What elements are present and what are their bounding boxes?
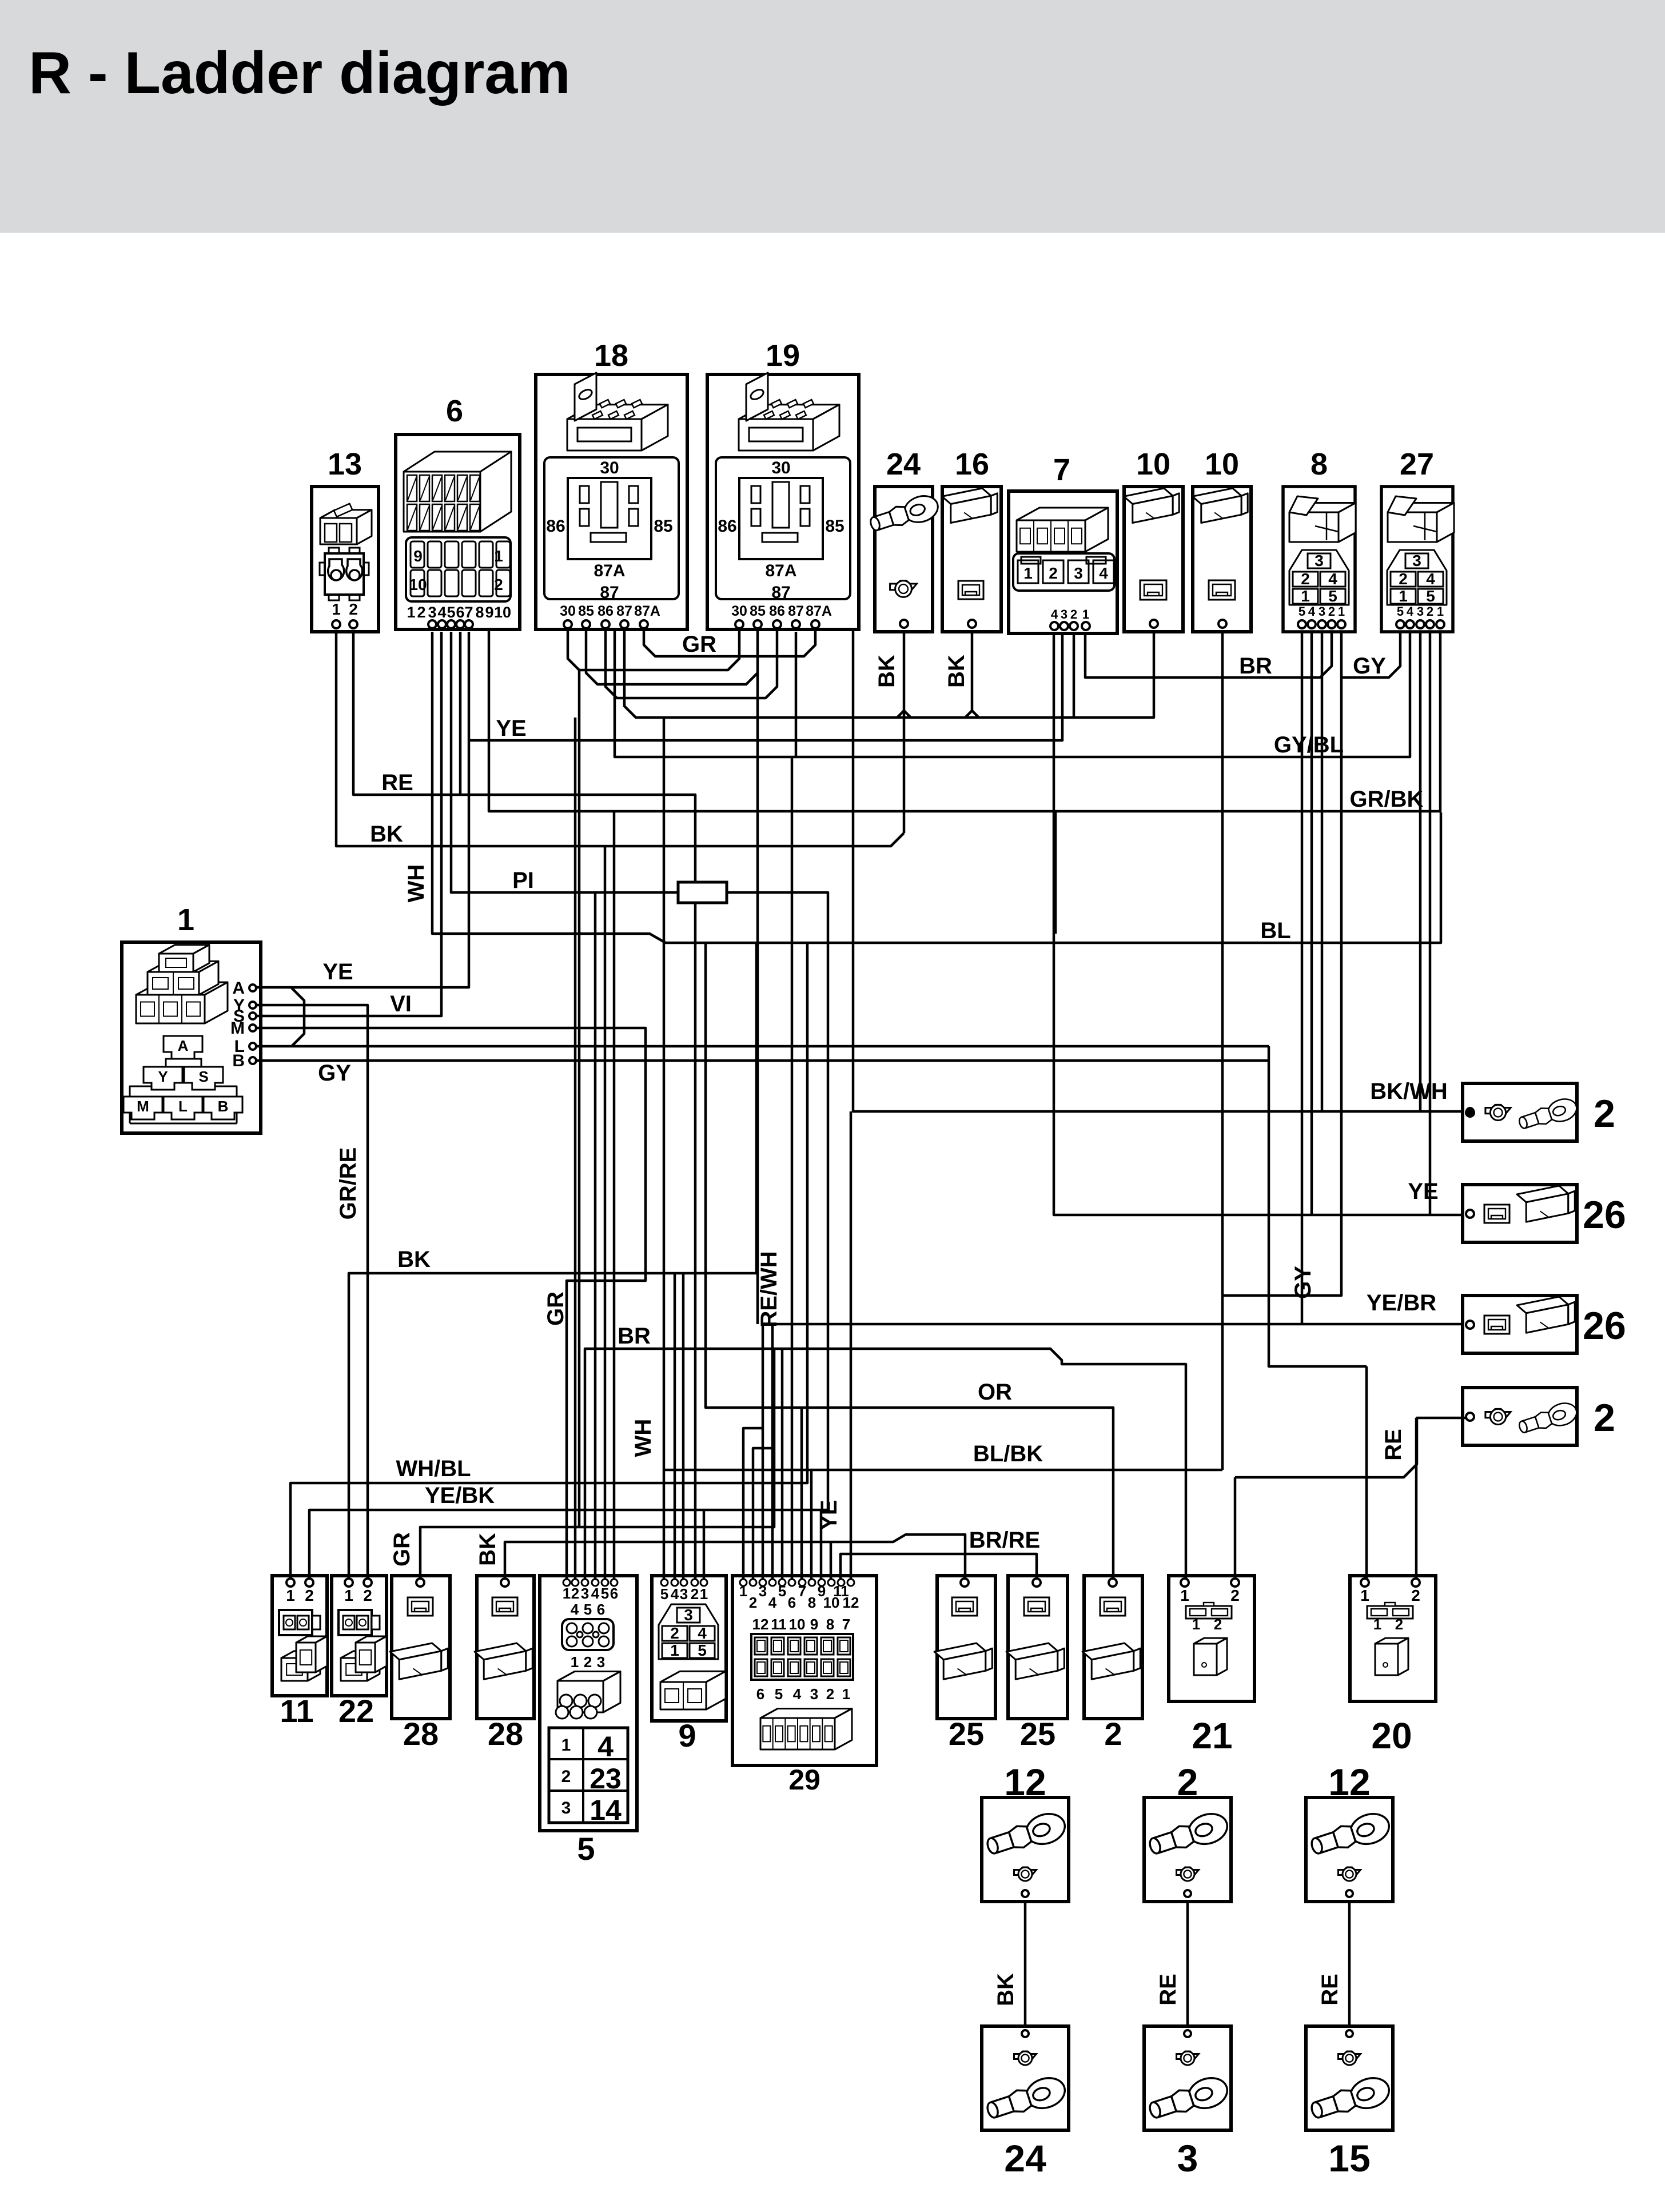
svg-text:Y: Y: [158, 1068, 168, 1085]
wire OR: [706, 943, 1113, 1581]
connector 21: [1169, 1576, 1254, 1701]
svg-text:87A: 87A: [765, 561, 796, 580]
wire GY comp1-B: [253, 1059, 1269, 1062]
wire YE/BK: [309, 1510, 828, 1581]
svg-text:7: 7: [1053, 453, 1070, 487]
svg-text:1: 1: [739, 1583, 747, 1600]
svg-text:BK: BK: [397, 1247, 431, 1272]
svg-text:28: 28: [403, 1716, 439, 1752]
svg-text:2: 2: [584, 1653, 592, 1671]
svg-text:7: 7: [798, 1583, 806, 1600]
svg-text:YE/BK: YE/BK: [425, 1483, 495, 1508]
svg-text:BK: BK: [944, 655, 969, 688]
svg-text:3: 3: [759, 1583, 767, 1600]
connector 20: [1350, 1576, 1436, 1701]
svg-text:10: 10: [1205, 447, 1239, 481]
svg-text:2: 2: [1230, 1587, 1240, 1604]
svg-text:3: 3: [810, 1685, 818, 1703]
svg-text:A: A: [178, 1037, 189, 1054]
svg-text:1: 1: [1301, 587, 1310, 605]
wire GY 8-27: [1341, 632, 1400, 677]
svg-text:VI: VI: [390, 991, 412, 1017]
svg-text:1: 1: [670, 1641, 679, 1659]
svg-text:87A: 87A: [593, 561, 625, 580]
svg-text:YE: YE: [322, 959, 353, 985]
svg-text:86: 86: [598, 603, 614, 619]
svg-text:1: 1: [1373, 1616, 1381, 1633]
wire BK 13p1: [336, 632, 904, 846]
wire YE to 26a: [1054, 632, 1463, 1215]
svg-text:5: 5: [1397, 604, 1404, 619]
svg-text:RE: RE: [1381, 1429, 1406, 1461]
svg-text:GR: GR: [543, 1292, 568, 1326]
svg-text:19: 19: [766, 338, 800, 373]
svg-text:28: 28: [488, 1716, 523, 1752]
table connector 5: [549, 1728, 628, 1823]
svg-text:6: 6: [788, 1594, 796, 1611]
svg-text:M: M: [230, 1019, 245, 1038]
svg-text:1: 1: [563, 1585, 571, 1602]
wire comp8 risers: [1301, 632, 1304, 1324]
wire comp1-L long: [253, 1045, 1269, 1048]
svg-text:2: 2: [1301, 570, 1310, 588]
svg-text:15: 15: [1328, 2137, 1370, 2179]
svg-text:24: 24: [886, 447, 921, 481]
terminal 2 bottom: [1084, 1576, 1142, 1719]
svg-text:3: 3: [1177, 2137, 1198, 2179]
svg-text:4: 4: [571, 1601, 579, 1618]
svg-text:S: S: [198, 1068, 208, 1085]
svg-text:RE: RE: [381, 770, 413, 795]
svg-text:YE: YE: [496, 716, 526, 741]
svg-text:20: 20: [1371, 1715, 1412, 1756]
wire stub vertical: [1054, 811, 1057, 934]
svg-text:RE: RE: [1156, 1974, 1181, 2006]
wire vertical from 10b: [1221, 632, 1224, 1470]
svg-text:WH/BL: WH/BL: [396, 1456, 471, 1481]
svg-text:4: 4: [1407, 604, 1414, 619]
svg-text:30: 30: [731, 603, 747, 619]
svg-text:BL: BL: [1260, 918, 1290, 943]
svg-text:13: 13: [328, 447, 362, 481]
svg-text:GY: GY: [318, 1061, 351, 1086]
svg-text:6: 6: [610, 1585, 618, 1602]
svg-text:1: 1: [1437, 604, 1444, 619]
svg-text:B: B: [232, 1051, 245, 1070]
terminal 25b: [1008, 1576, 1067, 1719]
svg-text:BR/RE: BR/RE: [969, 1528, 1040, 1553]
svg-text:B: B: [218, 1098, 229, 1115]
svg-text:2: 2: [1594, 1092, 1615, 1135]
wire 18p86-19p86: [606, 629, 777, 698]
svg-text:6: 6: [456, 604, 464, 621]
svg-text:1: 1: [700, 1585, 708, 1603]
terminal 2 right-top: [1463, 1083, 1577, 1141]
svg-text:5: 5: [577, 1831, 595, 1867]
svg-text:BR: BR: [618, 1324, 651, 1349]
svg-text:24: 24: [1004, 2137, 1046, 2179]
svg-text:10: 10: [789, 1616, 806, 1633]
svg-text:11: 11: [771, 1616, 787, 1633]
svg-text:25: 25: [949, 1716, 984, 1752]
wire GR comp1-M: [253, 1028, 646, 1581]
svg-text:5: 5: [1328, 587, 1337, 605]
svg-text:1: 1: [1338, 604, 1345, 619]
svg-text:BK: BK: [993, 1973, 1018, 2006]
svg-text:6: 6: [756, 1685, 764, 1703]
svg-text:A: A: [232, 979, 245, 998]
svg-text:87: 87: [788, 603, 804, 619]
wire comp9 risers: [674, 1273, 676, 1581]
svg-text:8: 8: [475, 604, 484, 621]
svg-text:2: 2: [494, 576, 503, 593]
svg-text:WH: WH: [631, 1419, 656, 1457]
svg-text:3: 3: [581, 1585, 589, 1602]
svg-text:5: 5: [601, 1585, 609, 1602]
wire GY vertical from 8p1: [1222, 632, 1341, 1296]
svg-text:4: 4: [1099, 564, 1108, 582]
svg-text:12: 12: [752, 1616, 769, 1633]
svg-text:2: 2: [1070, 607, 1077, 621]
svg-text:4: 4: [1328, 570, 1337, 588]
wire ring terminal RE b: [1348, 1902, 1351, 2026]
svg-text:10: 10: [409, 576, 427, 593]
svg-text:87: 87: [771, 583, 790, 602]
wire RE/WH 29p6: [791, 757, 794, 1581]
svg-text:85: 85: [750, 603, 766, 619]
svg-text:1: 1: [177, 903, 194, 937]
svg-text:1: 1: [1023, 564, 1033, 582]
header bar: [0, 0, 1665, 233]
svg-text:2: 2: [670, 1624, 679, 1642]
svg-text:9: 9: [485, 604, 493, 621]
svg-text:1: 1: [1082, 607, 1089, 621]
svg-text:3: 3: [597, 1653, 605, 1671]
wire 19p87 stub: [795, 632, 798, 757]
svg-text:4: 4: [1426, 570, 1435, 588]
svg-text:1: 1: [1360, 1587, 1369, 1604]
wire BK from 24: [903, 632, 906, 833]
svg-text:3: 3: [1074, 564, 1083, 582]
svg-text:2: 2: [826, 1685, 834, 1703]
svg-text:85: 85: [578, 603, 594, 619]
terminal 25a: [937, 1576, 995, 1719]
svg-text:87A: 87A: [806, 603, 832, 619]
svg-text:3: 3: [1319, 604, 1325, 619]
svg-text:16: 16: [955, 447, 989, 481]
svg-text:2: 2: [1594, 1396, 1615, 1440]
svg-text:23: 23: [589, 1763, 622, 1795]
svg-text:3: 3: [1061, 607, 1067, 621]
svg-text:PI: PI: [512, 868, 534, 893]
svg-text:86: 86: [546, 517, 565, 536]
svg-text:1: 1: [1180, 1587, 1189, 1604]
svg-text:1: 1: [842, 1685, 850, 1703]
svg-text:GR: GR: [682, 632, 716, 657]
wire 18p30-19p30: [568, 629, 739, 670]
svg-text:30: 30: [560, 603, 576, 619]
wire WH vertical 9p5: [663, 718, 666, 1581]
svg-text:5: 5: [584, 1601, 592, 1618]
svg-text:9: 9: [678, 1717, 696, 1753]
svg-text:BR: BR: [1239, 653, 1272, 679]
wire BL: [432, 632, 1441, 943]
svg-text:2: 2: [305, 1587, 314, 1604]
svg-text:1: 1: [494, 547, 503, 565]
wire bus to connector 10a: [624, 629, 1154, 718]
svg-text:9: 9: [810, 1616, 818, 1633]
svg-text:BL/BK: BL/BK: [973, 1441, 1043, 1466]
svg-text:10: 10: [494, 604, 511, 621]
svg-text:25: 25: [1020, 1716, 1055, 1752]
wire ring terminal BK: [1024, 1902, 1027, 2026]
wire comp1-Y GR/RE: [253, 1005, 368, 1581]
svg-text:2: 2: [691, 1585, 699, 1603]
svg-text:5: 5: [660, 1585, 668, 1603]
svg-text:1: 1: [407, 604, 415, 621]
wire YE 29p12: [850, 1111, 853, 1581]
svg-text:GR/RE: GR/RE: [336, 1147, 361, 1220]
svg-text:2: 2: [1411, 1587, 1420, 1604]
svg-text:22: 22: [338, 1693, 374, 1729]
wire BR comp5: [585, 1349, 1186, 1581]
wire BR 7-8: [1085, 632, 1332, 677]
svg-text:2: 2: [1399, 570, 1408, 588]
svg-text:4: 4: [437, 604, 446, 621]
svg-text:14: 14: [589, 1794, 622, 1826]
wire BK 28b to 25a: [505, 1535, 965, 1581]
svg-text:1: 1: [571, 1653, 579, 1671]
svg-text:2: 2: [1049, 564, 1058, 582]
terminal 2 right-bottom: [1463, 1388, 1577, 1445]
svg-text:4: 4: [671, 1585, 679, 1603]
wire BL/BK: [664, 1469, 1222, 1472]
svg-text:2: 2: [1104, 1716, 1122, 1752]
svg-text:1: 1: [344, 1587, 353, 1604]
svg-text:9: 9: [413, 547, 423, 565]
svg-text:4: 4: [1308, 604, 1316, 619]
svg-text:21: 21: [1192, 1715, 1232, 1756]
svg-text:6: 6: [597, 1601, 605, 1618]
svg-text:2: 2: [1427, 604, 1433, 619]
svg-text:1: 1: [1192, 1616, 1200, 1633]
svg-text:1: 1: [286, 1587, 295, 1604]
svg-text:2: 2: [349, 600, 358, 618]
svg-text:1: 1: [332, 600, 341, 618]
svg-text:2: 2: [571, 1585, 579, 1602]
svg-text:M: M: [137, 1098, 149, 1115]
svg-text:87: 87: [616, 603, 632, 619]
wire GY/BL: [615, 629, 1410, 757]
terminal 28b: [477, 1576, 534, 1719]
svg-text:4: 4: [768, 1594, 777, 1611]
terminal 28a: [392, 1576, 450, 1719]
svg-text:6: 6: [446, 394, 463, 428]
svg-text:4: 4: [793, 1685, 802, 1703]
svg-text:8: 8: [826, 1616, 834, 1633]
svg-text:5: 5: [447, 604, 455, 621]
svg-text:4: 4: [698, 1624, 707, 1642]
terminal 26 right-a: [1463, 1185, 1577, 1242]
svg-text:GR: GR: [389, 1532, 415, 1567]
svg-text:85: 85: [654, 517, 672, 536]
svg-text:2: 2: [417, 604, 425, 621]
svg-text:3: 3: [684, 1606, 693, 1624]
svg-text:86: 86: [718, 517, 736, 536]
svg-text:7: 7: [842, 1616, 850, 1633]
wire BK 22p1: [349, 943, 756, 1581]
wire GR ladder 18-19: [644, 629, 815, 656]
svg-text:18: 18: [594, 338, 628, 373]
svg-text:30: 30: [600, 459, 619, 477]
svg-text:4: 4: [598, 1731, 614, 1763]
svg-text:3: 3: [680, 1585, 688, 1603]
svg-text:OR: OR: [978, 1380, 1012, 1405]
svg-text:27: 27: [1400, 447, 1434, 481]
connector 11: [272, 1576, 327, 1696]
wire YE to 7: [469, 632, 1062, 740]
svg-text:10: 10: [1136, 447, 1170, 481]
wire VI comp1-S: [253, 632, 441, 1016]
wire BK/WH: [853, 629, 1463, 1111]
wire ring terminal RE a: [1186, 1902, 1189, 2026]
svg-text:2: 2: [1328, 604, 1335, 619]
svg-text:11: 11: [280, 1693, 313, 1729]
svg-text:3: 3: [428, 604, 436, 621]
svg-text:5: 5: [698, 1641, 707, 1659]
svg-text:GR/BK: GR/BK: [1350, 787, 1424, 812]
wire WH/BL: [290, 943, 807, 1581]
svg-text:2: 2: [363, 1587, 372, 1604]
svg-text:R - Ladder diagram: R - Ladder diagram: [29, 40, 571, 106]
svg-text:3: 3: [561, 1799, 571, 1818]
svg-text:26: 26: [1583, 1193, 1626, 1237]
svg-text:3: 3: [1412, 552, 1421, 569]
wire BK from 16: [965, 632, 972, 718]
svg-text:5: 5: [778, 1583, 786, 1600]
wire YE comp1-A: [253, 632, 469, 987]
svg-text:GY: GY: [1353, 653, 1386, 679]
svg-text:2: 2: [1395, 1616, 1403, 1633]
svg-text:29: 29: [788, 1764, 820, 1796]
svg-text:BK: BK: [874, 655, 899, 688]
svg-text:2: 2: [749, 1594, 757, 1611]
wire comp5 risers: [594, 892, 597, 1581]
svg-text:1: 1: [561, 1736, 571, 1755]
svg-text:8: 8: [808, 1594, 816, 1611]
svg-text:5: 5: [775, 1685, 783, 1703]
svg-text:3: 3: [1315, 552, 1324, 569]
svg-text:BK: BK: [370, 822, 403, 847]
svg-text:2: 2: [1214, 1616, 1222, 1633]
svg-text:87A: 87A: [634, 603, 660, 619]
svg-text:26: 26: [1583, 1304, 1626, 1348]
svg-text:L: L: [178, 1098, 188, 1115]
wire GR 28a: [420, 1349, 774, 1581]
svg-text:3: 3: [1417, 604, 1424, 619]
wire 29 pin risers: [743, 1428, 763, 1581]
wire 21 pin2 riser: [1234, 1477, 1237, 1581]
svg-text:30: 30: [771, 459, 790, 477]
wire RE chain to terminal 2: [1235, 1418, 1469, 1477]
svg-text:12: 12: [843, 1594, 859, 1611]
wire 18p85-19p85: [586, 629, 758, 684]
svg-text:4: 4: [591, 1585, 600, 1602]
wire BR/RE 29-25b: [841, 1554, 1037, 1581]
wire comp27 risers: [1419, 632, 1422, 1111]
svg-text:RE: RE: [1317, 1974, 1343, 2006]
svg-text:5: 5: [1426, 587, 1435, 605]
svg-text:8: 8: [1311, 447, 1328, 481]
wire junction GY chain: [1269, 1046, 1367, 1366]
wire GR/BK: [489, 629, 1440, 811]
wire 20 risers: [1365, 1366, 1368, 1581]
svg-text:5: 5: [1298, 604, 1305, 619]
svg-text:RE/WH: RE/WH: [756, 1251, 782, 1327]
svg-text:7: 7: [464, 604, 473, 621]
svg-text:86: 86: [769, 603, 785, 619]
svg-text:1: 1: [1399, 587, 1408, 605]
svg-text:GY/BL: GY/BL: [1274, 732, 1344, 758]
wire comp7 risers: [1073, 632, 1076, 718]
connector 22: [332, 1576, 387, 1696]
wire YE/BR to 26b: [763, 1324, 1463, 1581]
svg-text:WH: WH: [404, 864, 429, 903]
svg-text:87: 87: [600, 583, 619, 602]
svg-text:YE: YE: [1408, 1179, 1438, 1204]
terminal 26 right-b: [1463, 1296, 1577, 1353]
svg-text:2: 2: [561, 1767, 571, 1786]
svg-text:BK/WH: BK/WH: [1370, 1079, 1448, 1104]
wire PI with inline link: [451, 632, 678, 892]
wire comp6 pin6 drop: [459, 632, 462, 795]
svg-text:BK: BK: [475, 1533, 500, 1566]
svg-text:85: 85: [825, 517, 844, 536]
svg-text:4: 4: [1051, 607, 1058, 621]
wire filler verticals: [578, 670, 581, 1527]
wire RE 13-9: [353, 632, 695, 1581]
svg-text:YE/BR: YE/BR: [1367, 1290, 1436, 1316]
